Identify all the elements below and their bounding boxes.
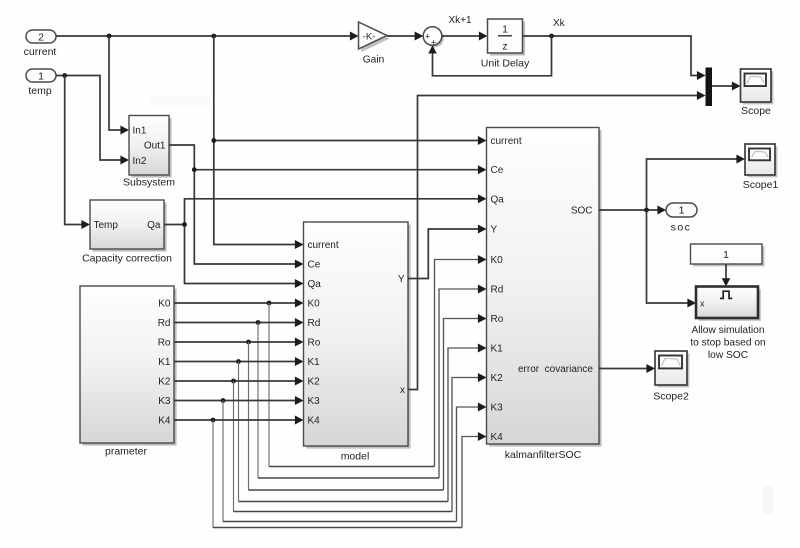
svg-text:Qa: Qa	[147, 220, 161, 231]
svg-text:K3: K3	[491, 403, 504, 414]
svg-text:K2: K2	[491, 373, 504, 384]
svg-text:K1: K1	[308, 357, 321, 368]
svg-text:Rd: Rd	[491, 285, 504, 296]
svg-text:Scope: Scope	[741, 105, 771, 117]
wire Y net model to kalman Y	[408, 225, 487, 279]
wire error covariance to Scope2	[599, 364, 655, 373]
svg-text:2: 2	[38, 32, 44, 44]
scope block Scope1	[743, 144, 779, 191]
wire current dropper to kalman current and model current	[211, 36, 486, 249]
svg-text:+: +	[425, 31, 430, 41]
unit delay block Unit Delay	[481, 19, 530, 70]
faint watermark	[150, 96, 774, 514]
svg-text:K4: K4	[308, 416, 321, 427]
wire temp net	[56, 76, 129, 165]
svg-text:z: z	[502, 41, 507, 53]
svg-text:to stop based on: to stop based on	[690, 338, 765, 349]
wire Gain to Sum	[387, 32, 423, 41]
wire K0 loop to kalmanfilterSOC	[269, 255, 487, 466]
svg-text:+: +	[431, 38, 436, 48]
gain block Gain	[359, 22, 390, 66]
svg-text:Temp: Temp	[94, 220, 119, 231]
mux block	[706, 68, 713, 107]
junction temp	[62, 73, 67, 78]
svg-text:K4: K4	[491, 432, 504, 443]
svg-text:Xk: Xk	[553, 18, 566, 29]
svg-text:Y: Y	[398, 274, 405, 285]
svg-text:K1: K1	[158, 357, 171, 368]
wire Unit Delay output Xk to Mux input 1	[523, 18, 706, 80]
svg-text:K2: K2	[308, 377, 321, 388]
wire Out1 net to kalman Ce and model Ce	[169, 145, 487, 268]
svg-text:Unit Delay: Unit Delay	[481, 58, 530, 70]
wire Rd net prameter to model	[174, 318, 304, 327]
svg-text:Gain: Gain	[363, 55, 385, 66]
svg-text:current: current	[491, 136, 522, 147]
wire Mux to Scope	[712, 82, 741, 91]
wire x net model to Mux input 2	[408, 91, 706, 389]
svg-text:low SOC: low SOC	[708, 350, 748, 361]
wire Sum to Unit Delay	[442, 15, 488, 40]
subsystem block Subsystem	[123, 116, 175, 189]
svg-text:Ro: Ro	[491, 314, 504, 325]
svg-text:x: x	[400, 385, 405, 396]
stop simulation block	[690, 287, 765, 362]
svg-text:Scope2: Scope2	[653, 391, 689, 403]
scope block Scope2	[653, 351, 689, 403]
svg-text:In2: In2	[133, 156, 147, 167]
wire Ro loop to kalmanfilterSOC	[249, 314, 487, 490]
sum block (Add)	[423, 27, 444, 48]
svg-text:Qa: Qa	[491, 194, 505, 205]
wire K3 net prameter to model	[174, 396, 304, 405]
wire K4 loop to kalmanfilterSOC	[213, 420, 487, 528]
wire K1 net prameter to model	[174, 357, 304, 366]
subsystem block model	[304, 222, 411, 463]
svg-text:Ce: Ce	[308, 260, 321, 271]
svg-text:1: 1	[502, 24, 508, 36]
svg-text:K3: K3	[308, 396, 321, 407]
svg-text:current: current	[24, 46, 57, 58]
svg-text:K0: K0	[158, 299, 171, 310]
svg-text:K0: K0	[308, 299, 321, 310]
svg-text:error covariance: error covariance	[518, 364, 593, 375]
junction Xk	[549, 34, 554, 39]
svg-text:temp: temp	[28, 85, 52, 97]
wire K3 loop to kalmanfilterSOC	[223, 401, 487, 522]
svg-text:Qa: Qa	[308, 279, 322, 290]
svg-text:x: x	[700, 299, 705, 309]
wire K2 net prameter to model	[174, 377, 304, 386]
wire SOC to Scope1	[647, 155, 746, 210]
svg-text:Ro: Ro	[308, 338, 321, 349]
svg-text:-K-: -K-	[363, 32, 376, 43]
junction current/In1	[107, 34, 112, 39]
subsystem block kalmanfilterSOC	[487, 128, 602, 462]
svg-text:prameter: prameter	[105, 446, 148, 458]
svg-text:current: current	[308, 240, 339, 251]
wire Qa net	[164, 194, 487, 288]
svg-text:Xk+1: Xk+1	[448, 15, 472, 26]
svg-text:K3: K3	[158, 396, 171, 407]
svg-text:Allow simulation: Allow simulation	[691, 325, 764, 336]
wire K1 loop to kalmanfilterSOC	[239, 344, 487, 502]
svg-text:In1: In1	[133, 126, 147, 137]
svg-text:K0: K0	[491, 255, 504, 266]
wire temp to Capacity correction	[65, 76, 90, 229]
svg-text:soc: soc	[671, 222, 692, 234]
outport 1 (soc)	[666, 203, 697, 234]
svg-text:Rd: Rd	[308, 318, 321, 329]
wire K0 net prameter to model	[174, 299, 304, 308]
svg-text:kalmanfilterSOC: kalmanfilterSOC	[505, 449, 582, 461]
wire SOC to stop block	[647, 210, 697, 307]
svg-text:1: 1	[38, 71, 44, 83]
wire K4 net prameter to model	[174, 416, 304, 425]
wire Ro net prameter to model	[174, 338, 304, 347]
svg-text:SOC: SOC	[571, 206, 593, 217]
svg-text:K4: K4	[158, 416, 171, 427]
constant block 1	[691, 244, 765, 266]
svg-text:K2: K2	[158, 377, 171, 388]
inport 1 (temp)	[26, 69, 56, 97]
svg-text:model: model	[341, 451, 370, 463]
svg-text:Ce: Ce	[491, 165, 504, 176]
wire current to Subsystem In1	[109, 36, 129, 134]
junction SOC	[644, 208, 649, 213]
wire current net: inport2 to Gain	[56, 32, 359, 41]
svg-text:1: 1	[679, 205, 685, 217]
svg-text:Capacity correction: Capacity correction	[82, 253, 172, 265]
inport 2 (current)	[24, 30, 57, 58]
wire K2 loop to kalmanfilterSOC	[234, 373, 487, 511]
wire Rd loop to kalmanfilterSOC	[258, 285, 487, 478]
junction current dropper	[211, 34, 216, 39]
svg-text:K1: K1	[491, 344, 504, 355]
subsystem block Capacity correction	[82, 200, 172, 265]
svg-text:Out1: Out1	[144, 141, 166, 152]
wire Constant to stop block	[722, 264, 731, 287]
svg-text:Y: Y	[491, 225, 498, 236]
svg-text:Rd: Rd	[158, 318, 171, 329]
svg-text:Scope1: Scope1	[743, 179, 779, 191]
svg-text:Ro: Ro	[158, 338, 171, 349]
svg-text:1: 1	[723, 249, 729, 261]
svg-text:Subsystem: Subsystem	[123, 177, 175, 189]
scope block Scope	[741, 69, 774, 117]
wire kalman SOC output	[599, 206, 666, 215]
subsystem block prameter	[80, 286, 177, 458]
wire feedback Xk to Sum	[428, 36, 551, 76]
